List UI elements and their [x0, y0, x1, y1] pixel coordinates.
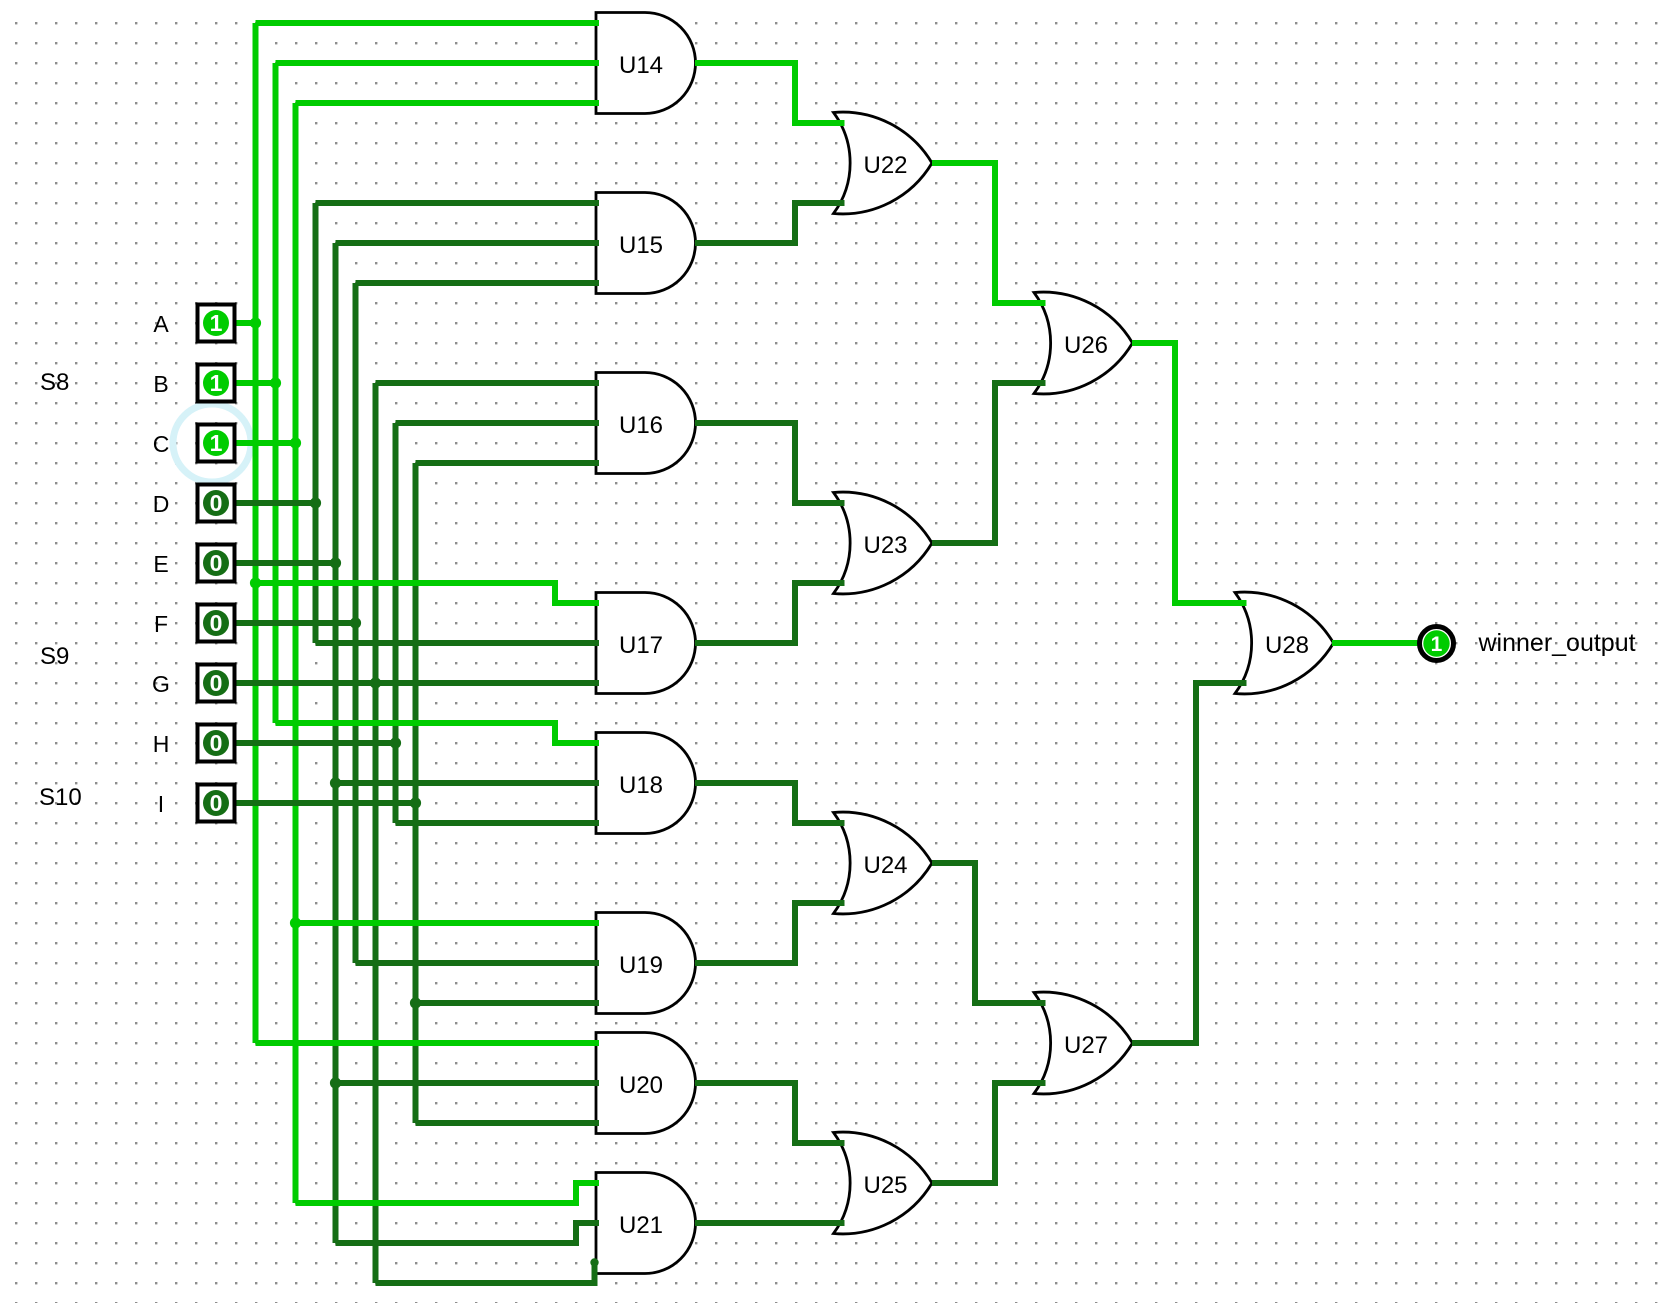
- wire E stub: [237, 560, 336, 566]
- wire E to U21.2: [336, 1223, 600, 1243]
- node E junction pin: [330, 557, 341, 568]
- wire H bus: [393, 423, 399, 823]
- svg-text:U28: U28: [1265, 632, 1309, 659]
- node E junction U18: [330, 777, 341, 788]
- wire I bus: [413, 463, 419, 1123]
- wire I to U20.3: [416, 1120, 600, 1126]
- svg-text:U21: U21: [619, 1212, 663, 1239]
- wire C to U14.3: [296, 100, 600, 106]
- wire E to U15.2: [336, 240, 600, 246]
- node D junction: [310, 497, 321, 508]
- wire U26 out to U28.1: [1132, 343, 1247, 603]
- svg-text:U25: U25: [863, 1172, 907, 1199]
- node I junction U19: [410, 997, 421, 1008]
- wire G bus: [373, 383, 379, 1283]
- wire G stub: [237, 680, 376, 686]
- input pin I: [158, 785, 235, 822]
- wire E to U18.2: [336, 780, 600, 786]
- wire F to U19.2: [356, 960, 600, 966]
- svg-text:S10: S10: [39, 784, 82, 811]
- wire F bus: [353, 283, 359, 963]
- svg-text:G: G: [152, 671, 170, 697]
- svg-text:0: 0: [210, 550, 223, 576]
- svg-text:0: 0: [210, 490, 223, 516]
- svg-text:1: 1: [210, 430, 223, 456]
- svg-text:U18: U18: [619, 772, 663, 799]
- AND gate U17: [596, 593, 696, 694]
- svg-text:1: 1: [1431, 633, 1443, 656]
- wire U27 out to U28.2: [1132, 683, 1247, 1043]
- input pin G: [152, 665, 234, 702]
- svg-text:U19: U19: [619, 952, 663, 979]
- wire D to U15.1: [316, 200, 600, 206]
- node G junction: [370, 677, 381, 688]
- AND gate U19: [596, 913, 696, 1014]
- svg-text:U27: U27: [1064, 1032, 1108, 1059]
- svg-text:U23: U23: [863, 532, 907, 559]
- wire U24 out to U27.1: [932, 863, 1046, 1003]
- node B junction pin: [270, 377, 281, 388]
- wire U22 out to U26.1: [932, 163, 1046, 303]
- AND gate U18: [596, 733, 696, 834]
- OR gate U25: [834, 1132, 933, 1234]
- output pin winner_output: [1420, 627, 1636, 661]
- node H junction: [390, 737, 401, 748]
- wire B to U18.1: [276, 723, 600, 743]
- input pin B: [153, 365, 234, 402]
- selection halo around input C: [173, 404, 251, 482]
- svg-text:S8: S8: [40, 369, 69, 396]
- wire D to U17.2: [316, 640, 600, 646]
- node F junction: [350, 617, 361, 628]
- input pin E: [153, 545, 234, 582]
- wire G to U17.3: [376, 680, 600, 686]
- wire B stub: [237, 380, 276, 386]
- AND gate U21: [596, 1173, 696, 1274]
- svg-text:U17: U17: [619, 632, 663, 659]
- wire D stub: [237, 500, 316, 506]
- node A junction pin: [250, 317, 261, 328]
- wire A to U17.1: [256, 583, 600, 603]
- node I junction pin: [410, 797, 421, 808]
- wire A to U14.1: [256, 20, 600, 26]
- OR gate U27: [1034, 992, 1133, 1094]
- svg-text:U24: U24: [863, 852, 907, 879]
- input pin H: [153, 725, 235, 762]
- node G-U21 corner: [590, 1258, 598, 1266]
- wire D bus: [313, 203, 319, 643]
- wire H to U16.2: [396, 420, 600, 426]
- node A junction U17: [250, 577, 261, 588]
- AND gate U20: [596, 1033, 696, 1134]
- wire F stub: [237, 620, 356, 626]
- wire C stub: [237, 440, 296, 446]
- OR gate U22: [834, 112, 933, 214]
- AND gate U15: [596, 193, 696, 294]
- svg-text:0: 0: [210, 610, 223, 636]
- wire I to U16.3: [416, 460, 600, 466]
- wire A stub: [237, 320, 256, 326]
- svg-text:0: 0: [210, 730, 223, 756]
- svg-text:E: E: [153, 551, 168, 577]
- input pin F: [154, 605, 235, 642]
- wire U15 out to U22.2: [695, 203, 845, 243]
- wire U20 out to U25.1: [695, 1083, 845, 1143]
- svg-text:S9: S9: [40, 643, 69, 670]
- svg-text:U16: U16: [619, 412, 663, 439]
- svg-text:C: C: [153, 431, 170, 457]
- wire U16 out to U23.1: [695, 423, 845, 503]
- wire G to U16.1: [376, 380, 600, 386]
- svg-text:D: D: [153, 491, 170, 517]
- wire C to U19.1: [296, 920, 600, 926]
- wire U21 out to U25.2: [695, 1220, 845, 1226]
- wire C bus: [293, 103, 299, 1203]
- wire A to U20.1: [256, 1040, 600, 1046]
- wire U19 out to U24.2: [695, 903, 845, 963]
- wire E to U20.2: [336, 1080, 600, 1086]
- svg-text:B: B: [153, 371, 168, 397]
- wire G to U21.3: [376, 1262, 595, 1283]
- svg-text:U15: U15: [619, 232, 663, 259]
- svg-text:U20: U20: [619, 1072, 663, 1099]
- wire U14 out to U22.1: [695, 63, 845, 123]
- svg-text:0: 0: [210, 790, 223, 816]
- wire B bus: [273, 63, 279, 723]
- svg-text:U14: U14: [619, 52, 663, 79]
- svg-text:0: 0: [210, 670, 223, 696]
- OR gate U26: [1034, 292, 1133, 394]
- OR gate U28: [1235, 592, 1334, 694]
- AND gate U14: [596, 13, 696, 114]
- svg-text:I: I: [158, 791, 164, 817]
- svg-text:1: 1: [210, 370, 223, 396]
- svg-text:H: H: [153, 731, 170, 757]
- wire A bus: [253, 23, 259, 1043]
- wire U23 out to U26.2: [932, 383, 1046, 543]
- input pin A: [153, 305, 234, 342]
- OR gate U24: [834, 812, 933, 914]
- wire C to U21.1: [296, 1183, 600, 1203]
- node C junction U19: [290, 917, 301, 928]
- svg-text:F: F: [154, 611, 168, 637]
- wire F to U15.3: [356, 280, 600, 286]
- input pin C: [153, 425, 235, 462]
- wire I stub: [237, 800, 416, 806]
- wire B to U14.2: [276, 60, 600, 66]
- node E junction U20: [330, 1077, 341, 1088]
- input pin D: [153, 485, 235, 522]
- svg-text:A: A: [153, 311, 169, 337]
- svg-text:U26: U26: [1064, 332, 1108, 359]
- OR gate U23: [834, 492, 933, 594]
- wire U28 out to winner_output: [1332, 640, 1419, 646]
- svg-text:U22: U22: [863, 152, 907, 179]
- svg-text:1: 1: [210, 310, 223, 336]
- wire H to U18.3: [396, 820, 600, 826]
- wire E bus: [333, 243, 339, 1243]
- wire U17 out to U23.2: [695, 583, 845, 643]
- wire I to U19.3: [416, 1000, 600, 1006]
- wire U25 out to U27.2: [932, 1083, 1046, 1183]
- svg-text:winner_output: winner_output: [1478, 629, 1636, 657]
- node C junction pin: [290, 437, 301, 448]
- AND gate U16: [596, 373, 696, 474]
- wire U18 out to U24.1: [695, 783, 845, 823]
- wire H stub: [237, 740, 396, 746]
